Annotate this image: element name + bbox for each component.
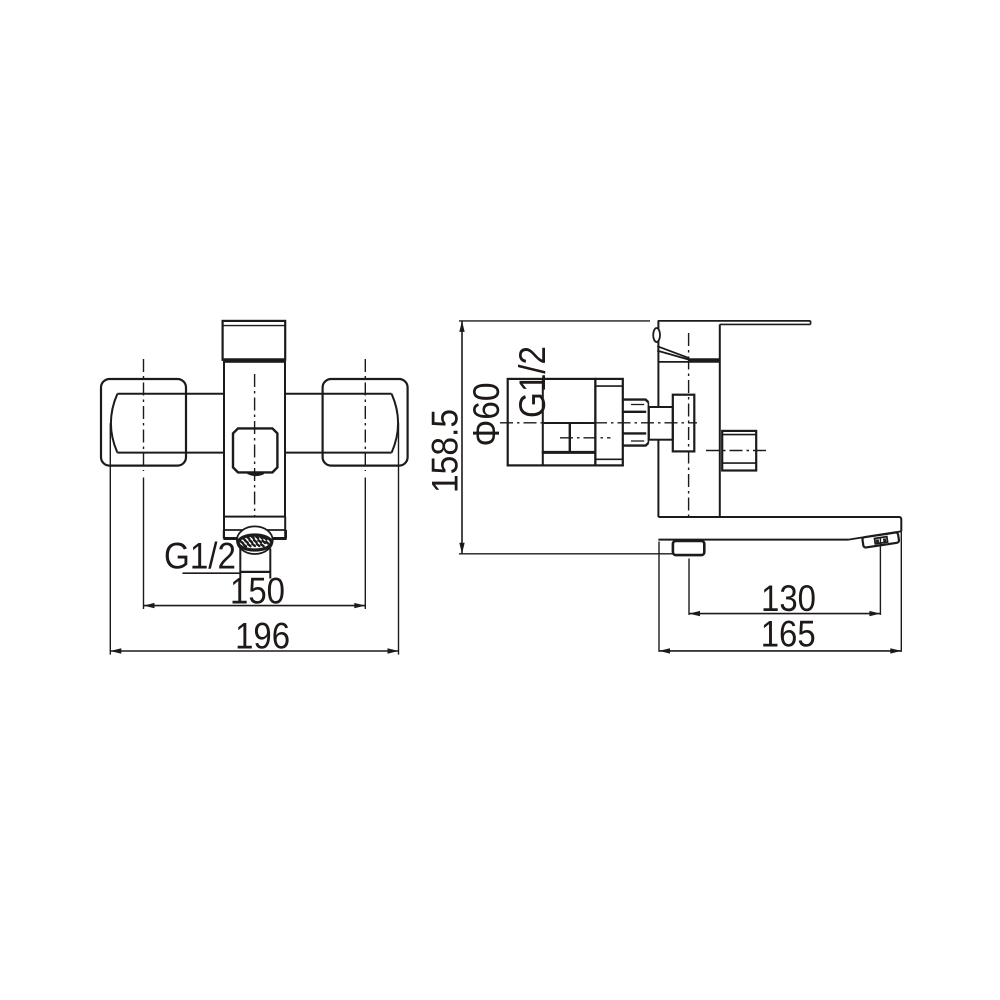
svg-text:196: 196 xyxy=(235,615,290,656)
svg-text:G1/2: G1/2 xyxy=(512,346,553,418)
svg-text:G1/2: G1/2 xyxy=(164,535,236,576)
svg-text:165: 165 xyxy=(761,614,816,655)
svg-text:Φ60: Φ60 xyxy=(466,383,507,447)
svg-text:150: 150 xyxy=(230,571,285,612)
svg-text:158.5: 158.5 xyxy=(425,409,466,493)
